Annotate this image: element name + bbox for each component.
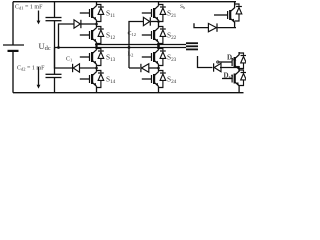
diode D12 clamp lower leg1 <box>72 64 97 72</box>
wire clamp leg1 upper vertical <box>59 24 74 48</box>
transistor S11 <box>80 2 104 24</box>
label S24 <box>167 75 177 85</box>
svg-text:C12: C12 <box>128 31 137 37</box>
node leg1 upper midpoint <box>95 23 98 26</box>
arrow Cd1 voltage <box>37 11 41 25</box>
diode Da top-right <box>208 23 236 31</box>
svg-text:C1: C1 <box>66 57 72 63</box>
label Ds2 <box>224 71 234 80</box>
transistor Sb1 top-right <box>214 2 242 28</box>
capacitor Cd1 <box>46 2 62 48</box>
label Ds1 <box>227 53 237 62</box>
transistor S22 <box>142 24 166 46</box>
wire left rail upper <box>12 2 14 45</box>
wire S24 emitter to rail <box>158 90 160 93</box>
label S23 <box>167 53 177 63</box>
node leg1 lower midpoint <box>95 67 98 70</box>
wire bottom DC rail <box>13 92 244 94</box>
node leg1 output junctions <box>95 43 98 49</box>
wire output bus y44.5 <box>97 44 187 46</box>
label S11 <box>106 9 115 19</box>
svg-text:Cd1 = 1 mF: Cd1 = 1 mF <box>15 5 43 11</box>
diode D11 clamp upper leg1 <box>74 20 97 28</box>
transistor S14 <box>80 68 104 90</box>
transistor S13 <box>80 46 104 68</box>
label S14 <box>106 75 116 85</box>
label L2 <box>128 52 134 58</box>
svg-text:L2: L2 <box>128 52 134 58</box>
diode Db bottom-right <box>213 63 239 71</box>
wire top-right stub <box>194 23 208 27</box>
label S22 <box>167 31 177 41</box>
capacitor Cd2 <box>46 48 62 93</box>
label Udc <box>39 41 51 52</box>
node leg2 neutral crossing <box>128 46 131 49</box>
label S13 <box>106 53 116 63</box>
node neutral junction <box>57 46 60 49</box>
wire S14 emitter to rail <box>96 90 98 93</box>
label S21 <box>167 9 177 19</box>
label C1 <box>66 57 72 63</box>
wire neutral bus y47.5 <box>55 47 187 49</box>
wire top DC rail <box>13 1 236 3</box>
wire clamp leg2 lower <box>129 67 140 69</box>
label S12 <box>106 31 116 41</box>
battery Udc source <box>3 45 24 52</box>
connector three-bar output <box>186 42 198 50</box>
label Sb <box>180 4 185 10</box>
wire clamp leg2 vertical <box>129 22 143 69</box>
transistor S12 <box>80 24 104 46</box>
transistor S21 <box>142 2 166 24</box>
wire clamp leg1 lower <box>55 48 73 69</box>
diode D21 clamp upper leg2 <box>143 17 158 25</box>
label Cd1 value <box>15 5 43 11</box>
arrow Cd2 voltage <box>37 67 41 89</box>
node leg2 lower midpoint <box>157 67 160 70</box>
diode D22 clamp lower leg2 <box>140 64 158 72</box>
label C12 <box>128 31 137 37</box>
wire right pair mid junction <box>238 66 240 72</box>
svg-text:Cd2 = 1 mF: Cd2 = 1 mF <box>17 66 45 72</box>
transistor S23 <box>142 46 166 68</box>
wire left rail lower <box>12 51 14 93</box>
transistor S24 <box>142 68 166 90</box>
node leg2 output junctions <box>157 43 160 49</box>
svg-text:Sb: Sb <box>180 4 185 10</box>
node leg2 upper midpoint <box>157 20 160 23</box>
wire bottom-right stub <box>198 56 213 68</box>
label Cd2 value <box>17 66 45 72</box>
transistor Sb2 upper of right pair <box>217 52 247 72</box>
transistor Sb3 lower of right pair <box>222 70 246 93</box>
